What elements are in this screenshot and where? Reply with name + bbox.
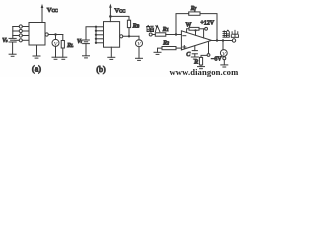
wire box bottom lead (a) (36, 45, 38, 56)
svg-text:(a): (a) (32, 65, 41, 74)
wire W right end to +12V (199, 28, 205, 30)
ground voltmeter (b) (136, 57, 143, 59)
resistor R2 (162, 47, 176, 50)
wire input row2 (a) (13, 30, 19, 32)
wire RB to output node (128, 28, 130, 37)
svg-text:−6V: −6V (211, 57, 222, 63)
wire R2 to noninverting input (176, 47, 181, 49)
label shuru (input) CJK glyphs (147, 25, 160, 31)
wire W left end to op-amp (187, 29, 189, 33)
power Vcc arrow (a) (41, 4, 44, 8)
resistor R1 (155, 33, 166, 36)
svg-text:+12V: +12V (200, 20, 214, 26)
ground R (198, 66, 205, 68)
wire input row1 (a) (13, 26, 19, 28)
ground battery (a) (9, 53, 16, 55)
wire output (a) (48, 34, 63, 36)
potentiometer W body (189, 27, 199, 30)
wire capacitor to ground (194, 54, 196, 57)
resistor RB (127, 20, 130, 27)
op-amp U2 (circuit b IC box) (104, 22, 120, 48)
label plus input (183, 46, 186, 48)
wire pin row2 (b) (96, 30, 104, 32)
wire Vcc lead U2 (109, 6, 111, 21)
label shuchu (output) CJK glyphs (223, 30, 239, 37)
wire pin row4 (b) (96, 38, 104, 40)
wire op-amp to capacitor C (194, 46, 196, 51)
ground box (a) (33, 55, 40, 57)
node dot W wiper (194, 29, 196, 31)
ground capacitor (191, 56, 198, 58)
capacitor C (192, 50, 197, 52)
wire input to R1 (152, 34, 155, 36)
terminal circle pin3 (a) (19, 34, 22, 37)
power Vcc arrow (b) (109, 4, 112, 8)
wire battery to ground (a) (12, 42, 14, 54)
svg-text:C: C (186, 52, 191, 58)
label minus input (183, 35, 186, 37)
svg-text:R2: R2 (162, 40, 169, 46)
node junction Rf output (216, 39, 218, 41)
terminal circle voltmeter (c) (223, 57, 226, 60)
node dot row2 (b) (95, 30, 97, 32)
wire Rf branch up (176, 14, 189, 35)
ground voltmeter (a) (52, 56, 59, 58)
svg-text:Vs: Vs (2, 38, 8, 44)
op-amp A1 triangle (181, 31, 211, 50)
wire input bus (b) (95, 27, 97, 43)
terminal circle +12V (205, 27, 208, 30)
wire input row3 (a) (13, 35, 19, 37)
terminal circle pin4 (a) (19, 39, 22, 42)
resistor R (199, 57, 202, 65)
wire output (b) (123, 35, 139, 37)
svg-text:VCC: VCC (114, 8, 125, 15)
svg-text:www.diangon.com: www.diangon.com (170, 67, 240, 77)
wire battery to bus (b) (86, 27, 96, 40)
wire pin row3 (b) (96, 34, 104, 36)
wire R1 to inverting input (166, 34, 182, 36)
wire Rf to output node (200, 14, 217, 41)
wire to voltmeter (c) (222, 41, 224, 50)
wire input bus (a) (12, 27, 14, 39)
node junction output (b) (128, 35, 130, 37)
svg-text:R1: R1 (162, 26, 169, 33)
terminal circle output (a) (45, 33, 48, 36)
wire ground to R2 (158, 48, 163, 52)
node dot row4 (b) (95, 38, 97, 40)
voltmeter V (c) (220, 50, 227, 57)
wire op-amp to -6V terminal (208, 42, 210, 54)
terminal circle output (c) (232, 39, 235, 42)
terminal circle pin1 (a) (19, 25, 22, 28)
op-amp U1 (circuit a IC box) (29, 23, 45, 46)
terminal circle output (b) (120, 35, 123, 38)
svg-text:(b): (b) (96, 65, 106, 74)
svg-text:VCC: VCC (47, 7, 58, 14)
battery Vs (a) (9, 37, 16, 39)
wire to voltmeter (b) (138, 36, 140, 39)
wire Vcc rail to RB (110, 16, 129, 20)
ground R2 (154, 51, 161, 53)
wire to voltmeter (a) (55, 35, 57, 40)
wire -6V rail to R (201, 55, 207, 57)
wire input row4 (a) (15, 39, 19, 41)
wire pin row1 (b) (96, 26, 104, 28)
wire box bottom lead (b) (110, 47, 112, 57)
node Vcc junction (b) (109, 15, 112, 18)
resistor Rf (189, 12, 200, 15)
ground battery (b) (83, 55, 90, 57)
ground box (b) (108, 56, 115, 58)
svg-text:Rf: Rf (190, 5, 197, 12)
svg-text:R: R (193, 59, 198, 66)
wire Vcc lead U1 (41, 7, 43, 23)
battery Vt (b) (83, 39, 90, 41)
node junction output (a) (54, 33, 56, 35)
ground voltmeter (c) (221, 64, 228, 66)
svg-text:Vt: Vt (77, 39, 83, 45)
node junction voltmeter branch (222, 39, 224, 41)
wire W wiper to op-amp (195, 30, 197, 35)
voltmeter V (a) (52, 39, 59, 46)
node dot row3 (b) (95, 34, 97, 36)
wire to RL (a) (62, 35, 64, 41)
svg-text:RL: RL (66, 42, 74, 49)
svg-text:RB: RB (132, 22, 140, 29)
node junction inverting input (175, 33, 177, 35)
resistor RL (61, 41, 64, 49)
node dot row1 (b) (95, 26, 97, 28)
wire +12V supply drop (203, 29, 205, 38)
terminal circle input (c) (149, 33, 152, 36)
wire voltmeter to ground (b) (138, 47, 140, 59)
wire battery to ground (b) (85, 44, 87, 56)
wire pin row5 (b) (96, 42, 104, 44)
voltmeter V (b) (136, 40, 143, 47)
node dot row5 (b) (95, 42, 97, 44)
terminal circle -6V (207, 54, 210, 57)
wire voltmeter to ground (c) (223, 60, 225, 65)
ground RL (60, 56, 67, 58)
wire output (c) (212, 40, 233, 42)
wire RL to ground (62, 48, 64, 57)
terminal circle pin2 (a) (19, 29, 22, 32)
wire R to ground (200, 65, 202, 67)
wire voltmeter to ground (a) (55, 46, 57, 57)
